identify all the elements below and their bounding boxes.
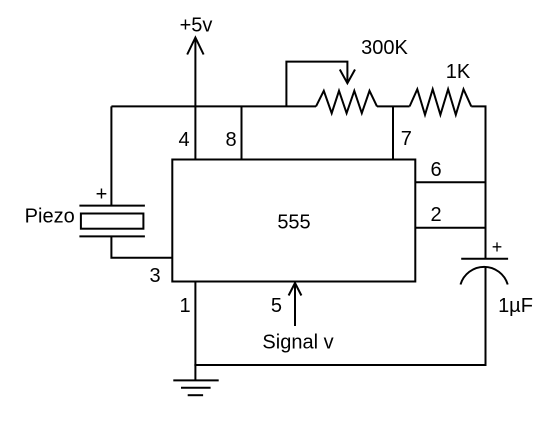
svg-text:555: 555 [277,212,310,234]
wire between 300K and 1K [377,105,410,107]
svg-text:3: 3 [149,265,160,287]
wire pin 8 [241,106,243,159]
piezo transducer [79,206,144,237]
potentiometer wiper arrow [286,62,355,107]
pin 2 label [430,204,441,226]
wire piezo bottom to pin 3 [111,236,172,257]
label Signal v [262,332,333,354]
svg-text:5: 5 [271,295,282,317]
resistor R2 1K [410,89,472,115]
svg-text:7: 7 [401,128,412,150]
wire pin 6 [415,181,485,183]
svg-text:Piezo: Piezo [25,206,75,228]
signal input arrow into pin 5 [289,283,302,326]
label 1K [446,61,471,83]
svg-text:1: 1 [179,295,190,317]
wire 1K to capacitor top [471,106,485,258]
pin 7 label [401,128,412,150]
label +5v [180,15,213,37]
wire piezo top [110,106,112,205]
svg-text:Signal v: Signal v [262,332,333,354]
label + polarity of piezo [96,184,108,206]
ground [173,380,218,395]
svg-text:4: 4 [178,129,189,151]
wire capacitor to bottom rail [485,267,487,366]
power +5v arrow [187,38,203,160]
label Piezo [25,206,75,228]
label 1uF [498,295,533,317]
capacitor C1 1uF [461,259,509,285]
wire bottom rail [194,364,486,366]
svg-text:2: 2 [430,204,441,226]
pin 5 label [271,295,282,317]
wire pin 1 [194,282,196,381]
svg-text:1K: 1K [446,61,471,83]
svg-text:6: 6 [430,159,441,181]
svg-text:8: 8 [225,129,236,151]
potentiometer R1 300K body [316,91,377,113]
pin 6 label [430,159,441,181]
pin 1 label [179,295,190,317]
svg-text:300K: 300K [361,37,408,59]
pin 8 label [225,129,236,151]
label 300K [361,37,408,59]
wire top rail [111,105,316,107]
wire pin 7 [392,106,394,159]
IC U1 555 [172,160,415,282]
svg-text:+: + [96,184,108,206]
label 555 [277,212,310,234]
svg-text:1µF: 1µF [498,295,533,317]
svg-text:+5v: +5v [180,15,213,37]
wire pin 2 [415,227,485,229]
pin 3 label [149,265,160,287]
svg-text:+: + [492,237,503,257]
label + polarity of capacitor [492,237,503,257]
pin 4 label [178,129,189,151]
